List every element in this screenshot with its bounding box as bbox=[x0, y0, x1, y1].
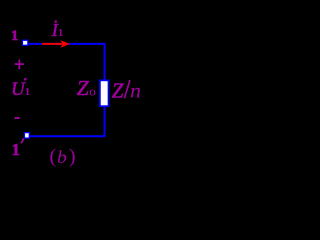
wire top horizontal bbox=[25, 43, 105, 45]
node terminal 1' (bottom-left) bbox=[24, 133, 29, 139]
prime tick of 1' bbox=[21, 139, 24, 144]
svg-text:Z: Z bbox=[112, 79, 124, 103]
wire right vertical upper bbox=[104, 43, 106, 81]
current arrow I1 bbox=[42, 43, 64, 45]
svg-text:): ) bbox=[69, 145, 76, 167]
wire bottom horizontal bbox=[27, 135, 106, 137]
svg-text:U: U bbox=[11, 79, 26, 100]
svg-text:1: 1 bbox=[58, 28, 63, 39]
svg-text:Z: Z bbox=[77, 76, 90, 100]
plus sign bbox=[15, 60, 24, 70]
svg-text:(: ( bbox=[50, 145, 57, 167]
svg-text:1: 1 bbox=[11, 28, 19, 44]
svg-text:o: o bbox=[89, 84, 96, 99]
minus sign bbox=[15, 117, 20, 119]
svg-text:n: n bbox=[130, 79, 141, 103]
svg-text:1: 1 bbox=[25, 87, 30, 98]
svg-text:b: b bbox=[57, 147, 67, 167]
wire right vertical lower bbox=[104, 106, 106, 137]
label Z/n : slash bbox=[124, 80, 129, 98]
node terminal 1 (top-left) bbox=[22, 40, 27, 45]
impedance box body bbox=[100, 80, 109, 106]
svg-text:1: 1 bbox=[12, 140, 21, 159]
